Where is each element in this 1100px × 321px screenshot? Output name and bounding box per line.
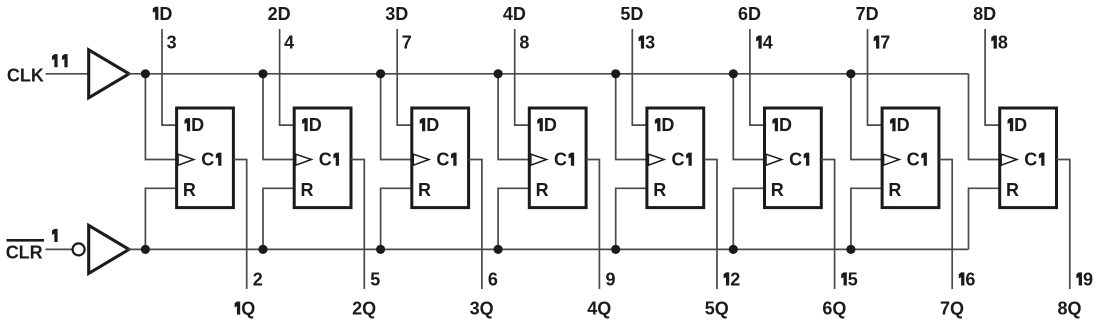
svg-text:D: D (544, 115, 557, 135)
svg-text:R: R (1006, 180, 1019, 200)
svg-text:C: C (319, 150, 332, 170)
junction dot CLK tap 5 (611, 69, 620, 78)
svg-text:6D: 6D (738, 4, 761, 24)
svg-text:D: D (426, 115, 439, 135)
pin 1 (CLR) (52, 229, 58, 242)
junction dot CLK tap 3 (376, 69, 385, 78)
svg-text:C: C (789, 150, 802, 170)
svg-text:2: 2 (730, 270, 740, 290)
svg-text:R: R (888, 180, 901, 200)
svg-text:CLR: CLR (6, 243, 43, 263)
svg-text:CLK: CLK (7, 65, 44, 85)
junction dot CLR tap 1 (141, 245, 150, 254)
junction dot CLR tap 6 (729, 245, 738, 254)
svg-text:R: R (418, 180, 431, 200)
svg-text:D: D (779, 115, 792, 135)
svg-text:7: 7 (880, 33, 890, 53)
svg-text:D: D (159, 4, 172, 24)
svg-text:3: 3 (645, 33, 655, 53)
wire CLK input (46, 73, 89, 75)
svg-text:D: D (1014, 115, 1027, 135)
wire 7D input (868, 29, 883, 125)
wire 8Q output (1057, 160, 1070, 290)
svg-text:2Q: 2Q (352, 299, 376, 319)
wire 3Q output (469, 160, 482, 290)
wire CLK rail (top horizontal) (128, 73, 969, 75)
pin 11 (CLK) (52, 54, 68, 67)
svg-text:3D: 3D (385, 4, 408, 24)
pin 13 (5D input) (639, 33, 656, 53)
svg-text:8Q: 8Q (1058, 299, 1082, 319)
svg-text:7Q: 7Q (940, 299, 964, 319)
junction dot CLR tap 4 (494, 245, 503, 254)
svg-text:5: 5 (848, 270, 858, 290)
wire 4D input (515, 29, 530, 125)
wire CLK feed to FF1 (145, 74, 176, 160)
wire CLK feed to FF7 (851, 74, 882, 160)
svg-text:4Q: 4Q (587, 299, 611, 319)
wire CLK feed to FF5 (616, 74, 647, 160)
wire 3D input (397, 29, 412, 125)
svg-text:5Q: 5Q (705, 299, 729, 319)
wire CLR feed to FF2 (263, 188, 294, 249)
pin 15 (6Q output) (841, 270, 858, 290)
wire CLR feed to FF5 (616, 188, 647, 249)
wire 5D input (632, 29, 647, 125)
svg-text:5: 5 (370, 270, 380, 290)
svg-text:9: 9 (1083, 270, 1093, 290)
junction dot CLK tap 6 (729, 69, 738, 78)
svg-text:9: 9 (605, 270, 615, 290)
wire CLR rail (bottom horizontal) (128, 248, 969, 250)
svg-text:D: D (191, 115, 204, 135)
flip-flop FF6 (765, 108, 822, 208)
svg-text:6Q: 6Q (822, 299, 846, 319)
flip-flop FF2 (294, 108, 351, 208)
svg-text:4: 4 (763, 33, 773, 53)
svg-text:2D: 2D (268, 4, 291, 24)
node 1Q label (235, 299, 256, 319)
svg-text:8D: 8D (973, 4, 996, 24)
wire 7Q output (939, 160, 952, 290)
wire CLR feed to FF1 (145, 188, 176, 249)
inverter bubble U2 (73, 243, 85, 255)
pin 14 (6D input) (756, 33, 773, 53)
junction dot CLK tap 4 (494, 69, 503, 78)
svg-text:C: C (1024, 150, 1037, 170)
junction dot CLR tap 7 (846, 245, 855, 254)
flip-flop FF1 (177, 108, 234, 208)
pin 18 (8D input) (991, 33, 1008, 53)
pin 19 (8Q output) (1076, 270, 1093, 290)
wire CLR rail rise to FF8 R input (969, 188, 1000, 249)
junction dot CLK tap 2 (258, 69, 267, 78)
wire 1D input (162, 29, 177, 125)
svg-text:C: C (672, 150, 685, 170)
svg-text:C: C (201, 150, 214, 170)
wire CLK feed to FF2 (263, 74, 294, 160)
svg-text:5D: 5D (620, 4, 643, 24)
flip-flop FF7 (882, 108, 939, 208)
svg-text:8: 8 (998, 33, 1008, 53)
svg-text:C: C (554, 150, 567, 170)
buffer U1 (CLK driver) (89, 50, 129, 98)
pin 12 (5Q output) (724, 270, 741, 290)
svg-text:R: R (183, 180, 196, 200)
overline for CLR (7, 239, 45, 242)
wire CLR input (46, 248, 73, 250)
wire 1Q output (233, 160, 246, 290)
svg-text:D: D (661, 115, 674, 135)
junction dot CLR tap 5 (611, 245, 620, 254)
wire 6Q output (821, 160, 834, 290)
junction dot CLK tap 7 (846, 69, 855, 78)
svg-text:D: D (309, 115, 322, 135)
flip-flop FF5 (647, 108, 704, 208)
wire CLR feed to FF3 (381, 188, 412, 249)
junction dot CLK tap 1 (141, 69, 150, 78)
wire CLK feed to FF6 (733, 74, 764, 160)
flip-flop FF8 (1000, 108, 1057, 208)
wire CLK feed to FF4 (498, 74, 529, 160)
flip-flop FF4 (529, 108, 586, 208)
svg-text:8: 8 (519, 33, 529, 53)
inverter U2 (CLR driver) (89, 225, 129, 273)
svg-text:4: 4 (284, 33, 294, 53)
wire CLK feed to FF3 (381, 74, 412, 160)
svg-text:2: 2 (253, 270, 263, 290)
svg-text:R: R (536, 180, 549, 200)
pin 16 (7Q output) (959, 270, 976, 290)
svg-text:R: R (300, 180, 313, 200)
flip-flop FF3 (412, 108, 469, 208)
wire 5Q output (704, 160, 717, 290)
svg-text:3: 3 (167, 33, 177, 53)
wire 4Q output (586, 160, 599, 290)
wire CLR feed to FF7 (851, 188, 882, 249)
wire 8D input (985, 29, 1000, 125)
wire CLR feed to FF4 (498, 188, 529, 249)
svg-text:R: R (771, 180, 784, 200)
svg-text:3Q: 3Q (470, 299, 494, 319)
junction dot CLR tap 3 (376, 245, 385, 254)
svg-text:6: 6 (488, 270, 498, 290)
wire CLK rail drop to FF8 (969, 74, 1000, 160)
node 1D label (153, 4, 173, 24)
wire 6D input (750, 29, 765, 125)
wire 2D input (280, 29, 295, 125)
svg-text:7: 7 (402, 33, 412, 53)
junction dot CLR tap 2 (258, 245, 267, 254)
wire 2Q output (351, 160, 364, 290)
pin 17 (7D input) (874, 33, 891, 53)
svg-text:4D: 4D (503, 4, 526, 24)
svg-text:6: 6 (965, 270, 975, 290)
svg-text:C: C (436, 150, 449, 170)
svg-text:D: D (897, 115, 910, 135)
svg-text:R: R (653, 180, 666, 200)
svg-text:7D: 7D (856, 4, 879, 24)
svg-text:Q: Q (241, 299, 255, 319)
wire CLR feed to FF6 (733, 188, 764, 249)
svg-text:C: C (907, 150, 920, 170)
